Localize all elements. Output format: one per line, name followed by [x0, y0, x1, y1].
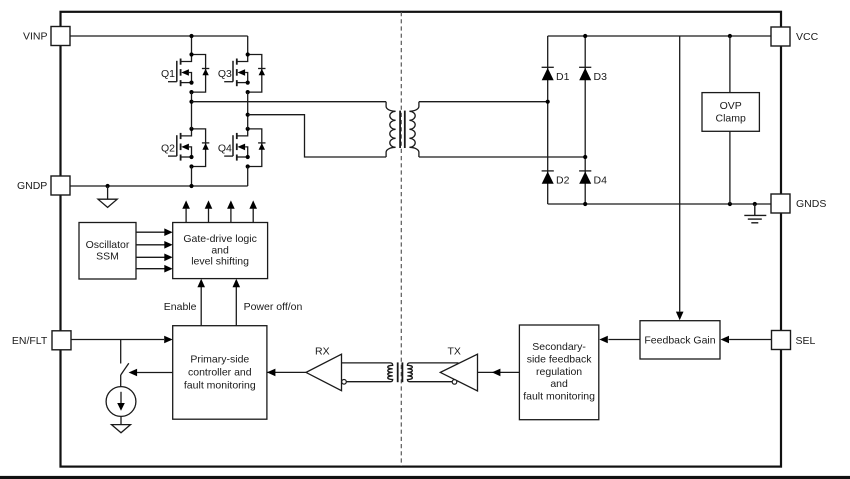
pin VCC [771, 27, 819, 46]
node GNDP-Q2 junction [189, 184, 193, 188]
transformer T2 core [397, 362, 399, 382]
wire enable arrow [197, 279, 205, 326]
svg-text:RX: RX [315, 346, 330, 358]
diode D3 [579, 67, 591, 80]
wire rectifier top rail [548, 35, 771, 37]
wire Q1 to node A [191, 92, 193, 102]
node secondary-D1 junction [546, 100, 550, 104]
arrow into feedback gain [676, 312, 684, 321]
wire Q3 column top [247, 36, 249, 55]
diode D4 [579, 171, 591, 184]
node top rail OVP [728, 34, 732, 38]
svg-text:D2: D2 [556, 174, 570, 186]
wire controller to switch arrow [129, 369, 173, 377]
svg-text:level shifting: level shifting [191, 255, 249, 267]
diode D1 [542, 67, 554, 80]
wire secondary top to D1 [419, 101, 548, 103]
wire osc arrow 4 [136, 265, 173, 273]
transformer T1 core [399, 111, 401, 148]
node top rail D3 [583, 34, 587, 38]
svg-text:TX: TX [448, 346, 461, 358]
transistor Q1 [168, 52, 209, 94]
node secondary-D3 junction [583, 155, 587, 159]
wire osc arrow 2 [136, 241, 173, 249]
wire SEL to feedback gain [721, 336, 772, 344]
wire D1/D2 column [547, 36, 549, 204]
transistor Q2 [168, 127, 209, 169]
diode D2 [542, 171, 554, 184]
node A [189, 100, 193, 104]
svg-text:Enable: Enable [164, 301, 197, 313]
wire node A to Q2 [191, 102, 193, 129]
secondary controller box U4 [519, 325, 598, 420]
node bottom rail GNDS tap [753, 202, 757, 206]
node B [246, 113, 250, 117]
wire node A to primary top [192, 101, 387, 103]
gate-drive logic box U2 [173, 223, 268, 279]
svg-text:EN/FLT: EN/FLT [12, 335, 48, 347]
op-amp RX [306, 346, 346, 391]
ground secondary (earth) [744, 204, 766, 223]
wire OVP top [729, 36, 731, 93]
transformer T1 primary winding [386, 102, 396, 157]
node VINP-Q1 junction [189, 34, 193, 38]
svg-text:GNDS: GNDS [796, 198, 826, 210]
wire OVP bottom [729, 131, 731, 204]
svg-text:side feedback: side feedback [527, 353, 593, 365]
wire rectifier bottom rail [548, 203, 771, 205]
transistor Q4 [224, 127, 265, 169]
svg-text:fault monitoring: fault monitoring [523, 391, 595, 403]
svg-text:D4: D4 [594, 174, 608, 186]
wire power off/on arrow [233, 279, 241, 326]
primary controller box U3 [173, 326, 267, 420]
svg-text:SSM: SSM [96, 250, 119, 262]
node bottom rail D4 [583, 202, 587, 206]
wire osc arrow 1 [136, 228, 173, 236]
svg-text:OVP: OVP [720, 100, 742, 112]
current source I1 [106, 387, 136, 417]
wire D3/D4 column [584, 36, 586, 204]
transformer T1 secondary winding [409, 102, 419, 157]
pin EN/FLT [12, 331, 71, 350]
svg-text:controller and: controller and [188, 367, 252, 379]
wire GNDP rail [70, 185, 248, 187]
wire Q3 to node B [247, 92, 249, 115]
oscillator box U1 [79, 223, 136, 280]
svg-text:GNDP: GNDP [17, 180, 47, 192]
transformer T2 right winding [407, 363, 458, 382]
svg-text:SEL: SEL [796, 335, 816, 347]
feedback gain box U6 [640, 321, 720, 359]
bottom rule [0, 476, 850, 479]
wire node B to Q4 [247, 115, 249, 129]
wire gate-drive up arrow 3 [227, 200, 235, 222]
svg-text:and: and [550, 378, 568, 390]
node bottom rail OVP [728, 202, 732, 206]
svg-text:Oscillator: Oscillator [86, 239, 130, 251]
wire VINP rail [70, 35, 248, 37]
transformer T2 left winding [342, 363, 393, 382]
svg-text:Q1: Q1 [161, 68, 175, 80]
svg-text:D1: D1 [556, 71, 570, 83]
wire secondary box to TX [478, 369, 520, 377]
pin GNDP [17, 176, 70, 195]
wire switch to current source [120, 375, 122, 387]
wire RX output to controller [267, 369, 306, 377]
switch S1 [121, 363, 129, 375]
OVP clamp box U5 [702, 93, 759, 132]
svg-text:VINP: VINP [23, 30, 48, 42]
wire secondary bottom to D4 column [419, 156, 585, 158]
isolation barrier (dashed) [400, 12, 402, 466]
wire feedback gain to secondary box [599, 336, 640, 344]
wire gate-drive up arrow 4 [249, 200, 257, 222]
transistor Q3 [224, 52, 265, 94]
ground current source (open triangle) [112, 425, 131, 433]
svg-text:regulation: regulation [536, 366, 582, 378]
svg-text:D3: D3 [594, 71, 608, 83]
svg-text:Q3: Q3 [218, 68, 232, 80]
svg-text:Primary-side: Primary-side [190, 354, 249, 366]
svg-text:Q2: Q2 [161, 143, 175, 155]
wire osc arrow 3 [136, 254, 173, 262]
wire gate-drive up arrow 2 [205, 200, 213, 222]
wire EN/FLT to controller [71, 336, 173, 344]
wire current source to ground [120, 416, 122, 424]
pin GNDS [771, 194, 826, 213]
wire Q1 column top [191, 36, 193, 55]
svg-text:Feedback Gain: Feedback Gain [644, 335, 715, 347]
ground primary (open triangle) [98, 186, 117, 207]
op-amp TX [440, 346, 477, 391]
svg-text:fault monitoring: fault monitoring [184, 380, 256, 392]
svg-text:Secondary-: Secondary- [532, 341, 586, 353]
wire VCC to feedback gain [679, 36, 681, 312]
svg-text:VCC: VCC [796, 31, 819, 43]
node GNDP ground tap [106, 184, 110, 188]
svg-text:Power off/on: Power off/on [244, 301, 303, 313]
pin VINP [23, 27, 70, 46]
wire gate-drive up arrow 1 [182, 200, 190, 222]
wire Q4 to GNDP rail [247, 167, 249, 187]
wire Q2 to GNDP rail [191, 167, 193, 187]
svg-text:Q4: Q4 [218, 143, 232, 155]
wire EN branch down [120, 340, 122, 364]
svg-text:Clamp: Clamp [716, 113, 747, 125]
wire node B to primary bottom [248, 115, 386, 157]
pin SEL [772, 331, 816, 350]
